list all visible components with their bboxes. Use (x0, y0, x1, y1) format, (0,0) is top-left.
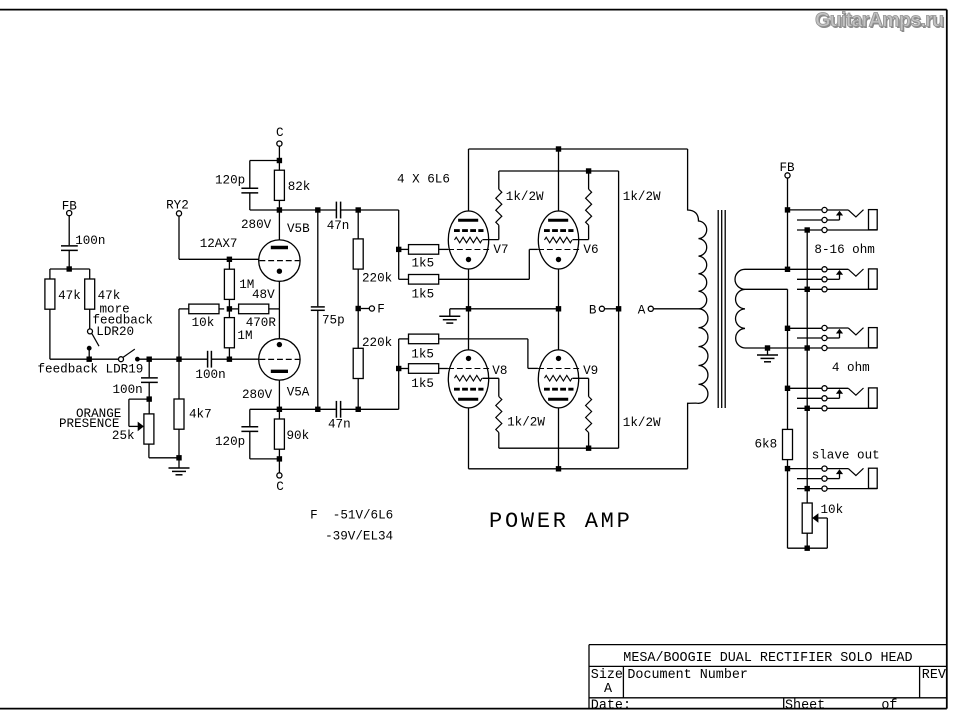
triode V5B (259, 240, 300, 281)
svg-text:1k/2W: 1k/2W (623, 416, 661, 430)
svg-text:75p: 75p (322, 313, 345, 327)
svg-text:-39V/EL34: -39V/EL34 (325, 530, 393, 544)
junction bus/1M (227, 357, 232, 362)
jack J3 4 ohm A sleeve line to body (827, 347, 877, 349)
wire jack4 sleeve stub (797, 407, 822, 409)
svg-text:V5A: V5A (287, 386, 310, 400)
svg-text:of: of (881, 698, 897, 713)
svg-text:10k: 10k (821, 503, 844, 517)
svg-text:V6: V6 (583, 243, 598, 257)
svg-text:slave out: slave out (812, 449, 880, 463)
junction jack2 sleeve (805, 287, 810, 292)
junction 220k lower bottom (356, 407, 361, 412)
junction 75p bottom (315, 407, 320, 412)
svg-text:V7: V7 (493, 243, 508, 257)
jack J1 8-16 ohm A sleeve contact circle (822, 227, 827, 232)
jack J2 8-16 ohm B ring contact circle (822, 277, 827, 282)
svg-text:PRESENCE: PRESENCE (59, 417, 119, 431)
wire 4k7 to ground (178, 429, 180, 458)
junction V7/V8 cathode (466, 306, 471, 311)
wire wiper feed (129, 398, 149, 400)
wire 47k right to LDR20 switch (89, 309, 91, 329)
resistor 1k/2W V7 screen (498, 171, 500, 189)
svg-text:100n: 100n (75, 234, 105, 248)
svg-text:1k/2W: 1k/2W (506, 190, 544, 204)
ground secondary (767, 348, 769, 355)
capacitor 100n presence (141, 377, 158, 379)
ground cathode rail (449, 309, 451, 317)
wire bus LDR19 to C 100n (137, 358, 207, 360)
capacitor 75p (317, 210, 319, 306)
wire secondary 4 ohm tap (745, 288, 788, 290)
resistor 220k lower (357, 309, 359, 349)
junction node B (616, 306, 621, 311)
wire plate bus top (469, 148, 688, 150)
wire pot bottom to ground rail (148, 444, 150, 458)
jack J1 8-16 ohm A tip contact circle (822, 207, 827, 212)
svg-text:4k7: 4k7 (189, 407, 212, 421)
jack J2 8-16 ohm B body (869, 269, 878, 289)
junction 75p top (315, 207, 320, 212)
resistor 220k upper (357, 210, 359, 239)
switch LDR20 (more feedback) (88, 329, 93, 334)
capacitor 120p top (241, 187, 258, 189)
page border bottom line (0, 708, 947, 710)
node F (361, 308, 369, 310)
junction jack4 sleeve (805, 406, 810, 411)
jack J2 8-16 ohm B ring contact line with normalling switch arrow (797, 278, 822, 280)
svg-text:47n: 47n (327, 219, 350, 233)
jack J1 8-16 ohm A body (869, 210, 878, 230)
jack J3 4 ohm A tip contact circle (822, 325, 827, 330)
jack J4 4 ohm B ring contact line with normalling switch arrow (797, 397, 822, 399)
jack J5 slave out tip contact line and spring (827, 468, 848, 470)
wire sleeve bus (806, 230, 808, 503)
wire splitter upper (398, 210, 400, 279)
svg-text:280V: 280V (241, 218, 272, 232)
junction slave bottom (805, 546, 810, 551)
resistor 1k5 V8 grid (399, 368, 409, 370)
jack J5 slave out tip contact circle (822, 466, 827, 471)
svg-text:F: F (377, 302, 385, 316)
wire jack1 tip line (788, 209, 823, 211)
junction secondary ground (765, 345, 770, 350)
wire 10k right (219, 308, 224, 310)
wire screen return (499, 447, 619, 449)
wire C19 to 47k pair (68, 251, 70, 269)
wire jack2 sleeve stub (797, 288, 822, 290)
capacitor 47n top (335, 202, 337, 219)
jack J1 8-16 ohm A tip contact line and spring (827, 209, 848, 211)
jack J4 4 ohm B body (869, 388, 878, 408)
junction V6 screen resistor (586, 168, 591, 173)
wire V5B/V5A cathode link (278, 309, 280, 339)
wire cap to pot 25k (148, 383, 150, 414)
svg-text:10k: 10k (192, 316, 215, 330)
junction V9 plate (556, 466, 561, 471)
junction jack3 tip feed (785, 326, 790, 331)
junction secondary top tap / FB line (785, 267, 790, 272)
wire C node down (278, 146, 280, 160)
svg-text:V8: V8 (492, 364, 507, 378)
jack J4 4 ohm B sleeve contact circle (822, 406, 827, 411)
wire presence junction down (148, 359, 150, 377)
svg-text:feedback LDR19: feedback LDR19 (38, 363, 144, 377)
resistor 1k5 V6 grid (399, 278, 409, 280)
transformer core (717, 210, 719, 408)
ground presence (178, 461, 180, 469)
page border right line (946, 10, 948, 709)
wire V5B plate row (279, 209, 317, 211)
svg-text:POWER AMP: POWER AMP (489, 509, 633, 534)
resistor 1M lower (228, 309, 230, 318)
capacitor 100n bus coupling (207, 351, 209, 368)
wire secondary top tap (745, 268, 822, 270)
svg-text:Sheet: Sheet (785, 698, 825, 713)
wire 47k left to bus (49, 309, 51, 359)
wire RY2 to V5B grid (178, 216, 180, 259)
capacitor 100n feedback (61, 245, 78, 247)
jack J3 4 ohm A body (869, 328, 878, 348)
junction jack1 sleeve (805, 227, 810, 232)
svg-text:1k5: 1k5 (411, 348, 434, 362)
resistor 4k7 (174, 399, 184, 429)
jack J4 4 ohm B tip contact line and spring (827, 387, 848, 389)
jack J5 slave out ring contact line with normalling switch arrow (797, 478, 822, 480)
junction V6/V9 cathode (556, 306, 561, 311)
junction V5B grid/1M (227, 257, 232, 262)
wire to 120p top (250, 160, 280, 162)
svg-text:120p: 120p (215, 174, 245, 188)
resistor 1k/2W V8 screen (482, 377, 498, 379)
jack J1 8-16 ohm A ring contact circle (822, 217, 827, 222)
jack J3 4 ohm A ring contact line with normalling switch arrow (797, 337, 822, 339)
junction 48V node (227, 306, 232, 311)
wire screen supply vertical (618, 171, 620, 448)
junction jack5 sleeve (805, 486, 810, 491)
resistor 10k (189, 304, 219, 314)
junction 220k upper top (356, 207, 361, 212)
wire V8 plate lead (468, 408, 470, 468)
jack J5 slave out body (869, 468, 878, 488)
wire 47n to 220k (341, 209, 359, 211)
pentode V6 (538, 211, 578, 269)
junction LDR20/bus (87, 357, 92, 362)
svg-text:120p: 120p (215, 435, 245, 449)
junction 1k5 lower (396, 366, 401, 371)
pentode V8 (mirrored) (448, 350, 488, 408)
wire 120p to plate wire (249, 194, 251, 211)
svg-text:V9: V9 (583, 364, 598, 378)
wire splitter lower (398, 339, 400, 409)
svg-text:4 ohm: 4 ohm (832, 361, 870, 375)
wire V9 top lead (558, 309, 560, 350)
junction bus/presence (147, 357, 152, 362)
pentode V7 (448, 211, 488, 269)
svg-text:90k: 90k (287, 429, 310, 443)
svg-text:1k5: 1k5 (411, 377, 434, 391)
wire V5A plate lead (278, 380, 280, 409)
svg-text:8-16 ohm: 8-16 ohm (814, 243, 874, 257)
wire secondary ground tap (745, 347, 822, 349)
resistor 1k5 V7 grid (399, 248, 409, 250)
wire plate bus bottom (469, 468, 688, 470)
wire V5A plate row (250, 408, 336, 410)
jack J2 8-16 ohm B sleeve contact circle (822, 287, 827, 292)
transformer primary winding (688, 149, 708, 469)
svg-text:1k5: 1k5 (412, 287, 435, 301)
svg-text:82k: 82k (288, 180, 311, 194)
jack J2 8-16 ohm B tip contact line and spring (827, 268, 848, 270)
jack J5 slave out sleeve line to body (827, 488, 877, 490)
wire bus cap to V5A grid (211, 358, 258, 360)
junction presence pot top (147, 396, 152, 401)
svg-text:GuitarAmps.ru: GuitarAmps.ru (815, 10, 943, 32)
jack J4 4 ohm B sleeve line to body (827, 407, 877, 409)
wire V7 cathode lead (468, 269, 470, 308)
junction jack1 tip feed (785, 207, 790, 212)
wire jack5 tip line (788, 468, 823, 470)
wire V5B plate lead (278, 210, 280, 240)
wire jack4 tip line (788, 387, 823, 389)
svg-text:220k: 220k (362, 336, 392, 350)
svg-text:C: C (276, 126, 284, 140)
wire jack1 sleeve stub (797, 229, 822, 231)
capacitor 47n bottom (335, 401, 337, 418)
svg-text:280V: 280V (242, 388, 273, 402)
wire jack5 sleeve stub (797, 488, 822, 490)
svg-text:1k/2W: 1k/2W (623, 190, 661, 204)
svg-text:Document Number: Document Number (627, 668, 748, 683)
resistor 47k right (85, 279, 95, 309)
jack J4 4 ohm B tip contact circle (822, 386, 827, 391)
wire plate row to splitter (358, 209, 399, 211)
jack J2 8-16 ohm B sleeve line to body (827, 288, 877, 290)
svg-text:Size: Size (591, 668, 623, 683)
wire bus to 4k7 (178, 359, 180, 399)
wire V7 plate lead (468, 149, 470, 211)
resistor 1M upper (228, 259, 230, 269)
jack J3 4 ohm A sleeve contact circle (822, 345, 827, 350)
wire V6 cathode lead (558, 269, 560, 308)
wire V8 top lead (468, 309, 470, 350)
wire V5B cathode lead (278, 281, 280, 309)
page border top line (0, 9, 947, 11)
junction V6 plate (556, 146, 561, 151)
jack J3 4 ohm A tip contact line and spring (827, 327, 848, 329)
wire slave bottom rail (788, 547, 828, 549)
svg-text:Date:: Date: (591, 698, 631, 713)
svg-text:F -51V/6L6: F -51V/6L6 (310, 509, 393, 523)
wire 470R wiring (229, 308, 238, 310)
wire pot bottom lead (806, 533, 808, 548)
junction 1k5 upper (396, 247, 401, 252)
resistor 1k5 V9 grid (399, 338, 409, 340)
resistor 6k8 (783, 429, 793, 459)
wire V6 plate lead (558, 149, 560, 211)
wire screen bus top (499, 170, 619, 172)
potentiometer 10k slave level (802, 503, 812, 533)
svg-text:100n: 100n (195, 368, 225, 382)
wire jack3 tip line (788, 327, 823, 329)
wire FB to jack1 (787, 178, 789, 269)
junction jack4 tip feed (785, 386, 790, 391)
junction bus/4k7 (176, 357, 181, 362)
svg-text:REV: REV (922, 668, 946, 683)
transformer secondary winding (735, 269, 745, 348)
svg-text:1k5: 1k5 (412, 257, 435, 271)
svg-text:LDR20: LDR20 (96, 325, 134, 339)
svg-text:47k: 47k (98, 289, 121, 303)
svg-text:MESA/BOOGIE DUAL RECTIFIER SOL: MESA/BOOGIE DUAL RECTIFIER SOLO HEAD (623, 651, 912, 666)
svg-text:RY2: RY2 (166, 199, 189, 213)
svg-text:V5B: V5B (287, 222, 310, 236)
svg-text:B: B (589, 304, 597, 318)
junction C/82k/120p (277, 158, 282, 163)
svg-text:100n: 100n (113, 383, 143, 397)
jack J5 slave out sleeve contact circle (822, 486, 827, 491)
wire V9 plate lead (558, 408, 560, 468)
switch LDR19 (feedback) on bus (119, 357, 124, 362)
junction jack3 sleeve (805, 345, 810, 350)
potentiometer 25k ORANGE PRESENCE (144, 414, 154, 444)
svg-text:47n: 47n (328, 418, 351, 432)
jack J1 8-16 ohm A ring contact line with normalling switch arrow (797, 219, 822, 221)
junction FB/47k (67, 266, 72, 271)
resistor 47k left (45, 279, 55, 309)
jack J4 4 ohm B ring contact circle (822, 396, 827, 401)
svg-text:A: A (604, 682, 613, 697)
svg-text:25k: 25k (112, 429, 135, 443)
junction jack5 tip feed (785, 466, 790, 471)
pentode V9 (mirrored) (538, 350, 578, 408)
resistor 82k (278, 161, 280, 171)
svg-text:12AX7: 12AX7 (200, 237, 238, 251)
jack J3 4 ohm A ring contact circle (822, 335, 827, 340)
junction V5A plate (277, 407, 282, 412)
svg-text:4 X 6L6: 4 X 6L6 (397, 172, 450, 186)
jack J1 8-16 ohm A sleeve line to body (827, 229, 877, 231)
title block frame (589, 644, 947, 646)
capacitor 120p bottom (249, 409, 251, 426)
node C bottom (278, 459, 280, 473)
jack J5 slave out ring contact circle (822, 476, 827, 481)
svg-text:48V: 48V (252, 288, 275, 302)
wire cathode rail (450, 308, 559, 310)
junction V9 screen return (586, 446, 591, 451)
wire 10k left to bus (179, 308, 189, 310)
svg-text:6k8: 6k8 (755, 437, 778, 451)
junction node F (356, 306, 361, 311)
svg-text:220k: 220k (362, 271, 392, 285)
resistor 470R (239, 304, 269, 314)
wire FB node to C19 (68, 216, 70, 246)
resistor 1k/2W V9 screen (572, 377, 588, 379)
svg-text:1M: 1M (237, 329, 252, 343)
triode V5A (mirrored) (259, 339, 300, 380)
junction V5B plate (277, 207, 282, 212)
svg-text:47k: 47k (58, 289, 81, 303)
jack J2 8-16 ohm B tip contact circle (822, 267, 827, 272)
resistor 1k/2W V6 screen (588, 171, 590, 189)
svg-text:A: A (638, 304, 646, 318)
wire 6k8 to jack5 (787, 460, 789, 549)
junction 90k/120p (277, 456, 282, 461)
wire 4ohm feed vertical (787, 289, 789, 429)
svg-text:C: C (276, 480, 284, 494)
svg-text:1k/2W: 1k/2W (507, 416, 545, 430)
resistor 90k (278, 409, 280, 419)
junction 4k7/pot ground (176, 455, 181, 460)
